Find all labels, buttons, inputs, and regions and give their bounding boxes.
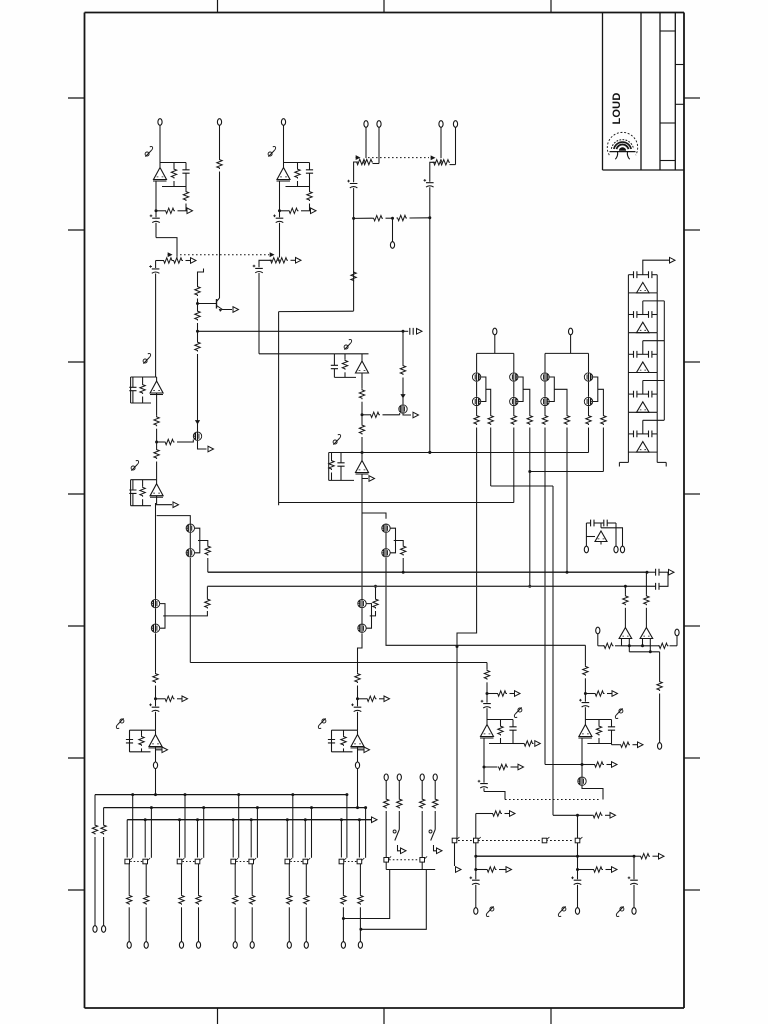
capacitor C3 (polarized) [149, 261, 159, 378]
ladder stage U12 caps C24 C25 [628, 351, 664, 394]
ladder stage U10 caps C20 C21 [628, 271, 664, 314]
terminal J10 [569, 328, 573, 353]
pair1 gate resistor R22 [200, 541, 211, 573]
switch S2 [474, 837, 481, 843]
dotted gang link G1-G2 [505, 799, 600, 801]
flag b D1 [116, 718, 124, 728]
switch S5 [384, 856, 391, 862]
wire net BUS452 [329, 451, 589, 454]
wire col7 end [588, 435, 590, 453]
G1 ground chain R42 C23 [470, 843, 512, 908]
terminal J12 [675, 629, 679, 646]
switch pair S11 S12 with R56 R57 [177, 793, 205, 948]
ladder stage U13 caps C26 C27 [628, 391, 664, 434]
G1 input chain R31 C18 [481, 663, 520, 720]
S1 lower arrow [455, 843, 462, 873]
capacitor C4 and arrow [403, 328, 422, 335]
terminal J2 [217, 119, 222, 298]
switch S1 [452, 837, 459, 843]
terminal J8 [390, 242, 394, 249]
wire col4 to busB [528, 435, 531, 588]
mosfet pair Q3a Q3b with R3a R3b [472, 373, 493, 435]
switch dashed link S5-S7 [389, 859, 420, 861]
op-amp U3 with R11 C10 [331, 354, 369, 378]
wire net BASE [198, 330, 405, 333]
wire net N311 [279, 310, 354, 312]
op-amp U18 with R32 C19 [480, 720, 517, 744]
capacitor C6 (polarized) [273, 211, 283, 258]
transistor Q1 [198, 298, 239, 312]
op-amp U4 output, arrow [356, 474, 375, 603]
flag b G2 [615, 708, 623, 718]
switch pair S17 S18 with R62 R63 [339, 793, 367, 948]
switch S4 [575, 837, 582, 843]
capacitor C8 (polarized) [347, 180, 357, 311]
op-amp U4 with R16 C11 [329, 453, 369, 481]
terminal J22 with resistor R47 [433, 774, 438, 808]
pair2 gate resistor R23 [165, 586, 210, 616]
flag b G1 [514, 707, 522, 717]
terminal J9 [493, 328, 497, 353]
wire sw drop [577, 815, 579, 838]
op-amp U6 output branches [156, 496, 191, 599]
pair4 gate resistor R25 [372, 585, 379, 616]
flag dP B2 [131, 460, 139, 470]
capacitor C15 [624, 572, 668, 590]
resistor R20 [154, 442, 159, 480]
terminal J21 with resistor R46 [420, 774, 425, 808]
svg-text:LOUD: LOUD [611, 93, 623, 125]
terminal J19 with resistor R44 [384, 774, 389, 808]
resistor R2, resistor R3, output arrow [155, 181, 193, 214]
wire net BUSA [208, 571, 647, 573]
wire pair2 down [155, 633, 157, 672]
flag dP C1 [344, 339, 352, 349]
terminal J24 inline [355, 750, 359, 809]
wire net C1IN [259, 353, 334, 355]
op-amp U19 with R36 C22 R37 [578, 720, 643, 748]
switch pair S13 S14 with R58 R59 [231, 793, 259, 948]
wire net N471 [530, 471, 604, 473]
mosfet pair Q10 [382, 524, 396, 557]
mosfet pair Q4a Q4b with R4a R4b [510, 373, 533, 435]
selector wire 3 [421, 811, 423, 857]
G2 ground chain R43 C24 [571, 843, 617, 908]
mosfet pair Q5a Q5b with R5a R5b [541, 373, 570, 435]
wire net N815 [553, 814, 592, 817]
resistor R28 R29 and summing wires [598, 643, 677, 653]
bus2 left leg R53 [101, 808, 106, 933]
resistor R39 and arrow [592, 813, 616, 819]
wire col1 to staircase [456, 435, 477, 840]
wire net BUS3 [127, 817, 377, 823]
ladder stage U11 caps C22 C23 [628, 311, 664, 354]
mosfet pair Q11 [358, 599, 372, 632]
op-amp U6 with R21 C13 [129, 480, 163, 506]
wire vertical N278 [278, 312, 280, 506]
ladder bottom feet [619, 452, 666, 467]
wire col3 to N502 [513, 435, 515, 503]
potentiometer VR4 [430, 156, 456, 182]
wire net BUS1 [95, 794, 347, 796]
resistor R12, resistor R13 [359, 373, 399, 418]
resistor R27 [644, 572, 649, 627]
pair3 gate resistor R24 [396, 541, 406, 574]
switch pair S15 S16 with R60 R61 [285, 793, 313, 948]
terminal J18 [558, 906, 579, 916]
mosfet Q2 with drain resistor R14 [399, 331, 419, 418]
mosfet pair Q8 [186, 524, 200, 557]
D2 input chain R50 C28 [351, 672, 389, 730]
wire net BUSB [207, 585, 655, 587]
terminal J5 [377, 121, 381, 164]
flag dP C2 [333, 434, 341, 444]
op-amp U21 with R51 C29 [328, 730, 370, 752]
resistor R7, resistor R8, output arrow [278, 181, 316, 214]
ladder outer rail [663, 301, 665, 420]
mosfet pair Q9 [151, 599, 165, 632]
wire to pot wiper [156, 238, 177, 257]
wire pair3 feed [362, 513, 386, 519]
terminal J14 [584, 546, 588, 553]
potentiometer VR2 [259, 253, 301, 267]
resistor R30 to terminal J13 [657, 652, 662, 750]
potentiometer VR3 [354, 156, 379, 182]
terminal J17 [474, 906, 494, 916]
wire net BUS2 [104, 807, 366, 809]
resistor R4, resistor R5, resistor R5b bias chain [195, 269, 204, 415]
capacitor C14 and arrow [646, 569, 675, 576]
selector switch S8 [429, 811, 442, 854]
flag dP A2 [268, 146, 276, 156]
flag dP A1 [145, 146, 153, 156]
wire drain bus 2 [545, 353, 589, 372]
wire net BUS856 [474, 855, 635, 858]
wire net G1IN [190, 662, 487, 664]
capacitor C2 (polarized) [150, 211, 160, 238]
wire col5 long [544, 435, 546, 765]
mosfet Q7 [190, 415, 214, 452]
terminal J3 [281, 119, 285, 163]
R40 feed [476, 811, 515, 839]
resistor R15 [359, 415, 364, 453]
capacitor C7 (polarized) [253, 265, 263, 354]
switch S7 [420, 856, 427, 862]
G2 input chain R35 C21 [579, 645, 617, 719]
ganged pot dotted link [180, 254, 269, 256]
op-amp U20 with R49 C27 [126, 730, 168, 752]
terminal J20 with resistor R45 [397, 774, 402, 808]
terminal J6 [439, 121, 443, 156]
wire pair3 down [386, 558, 585, 645]
D1 input chain R48 C26 [149, 672, 187, 730]
wire net N553 [552, 486, 554, 815]
ganged pot dotted link 2 [368, 157, 429, 159]
mosfet pair Q6a Q6b with R6a R6b [584, 373, 606, 435]
wire col6 to busA [566, 435, 569, 574]
flag dP B1 [143, 353, 151, 363]
selector routing wires [342, 862, 435, 931]
wire col8 end [602, 435, 604, 472]
LOUD logo mark [607, 132, 637, 159]
cap block U17 C16 C17 [586, 520, 622, 547]
switch pair S9 S10 with R54 R55 [125, 793, 153, 948]
resistor R41 and arrow [634, 853, 664, 859]
wire col2 to N486 [491, 435, 553, 487]
resistor R9, resistor R10 divider [354, 215, 430, 241]
terminal J16 [620, 546, 624, 553]
wire drain bus 1 [477, 353, 514, 372]
terminal J1 [158, 119, 162, 163]
op-amp U2 with feedback R6 C5 [277, 163, 314, 187]
capacitor C9 (polarized) [424, 179, 434, 454]
C25 chain [616, 856, 637, 916]
switch S3 [542, 837, 549, 843]
terminal J7 [453, 121, 457, 165]
resistor R26 [623, 586, 628, 627]
op-amp U5 with R17 C12 [129, 377, 163, 403]
title block grid [603, 13, 685, 171]
op-amp U1 with feedback R1 C1 [153, 163, 190, 187]
LOUD logo text [611, 93, 623, 125]
terminal J15 [614, 546, 618, 553]
potentiometer VR1 [156, 253, 196, 263]
wire pair1 down [189, 558, 191, 663]
flag b D2 [318, 718, 326, 728]
wire pair4 down [358, 633, 363, 672]
wire net N502 [279, 502, 514, 504]
G2 output mosfet Q12 R38 [545, 738, 617, 800]
selector wire 1 [385, 811, 387, 857]
ladder stage U14 caps C28 C29 [628, 431, 657, 453]
switch row dashed [458, 840, 573, 842]
selector switch S6 [393, 811, 406, 854]
bus1 left leg R52 [92, 795, 97, 933]
resistor R18, resistor R19 [154, 393, 190, 445]
border frame [85, 13, 685, 1009]
ladder input wire and arrow [643, 257, 675, 274]
G1 output R33 R34 C20 [478, 738, 541, 800]
terminal J11 [596, 627, 600, 646]
op-amp U15 U16 [619, 628, 653, 646]
terminal J4 [364, 121, 368, 156]
terminal J23 inline [153, 750, 157, 796]
